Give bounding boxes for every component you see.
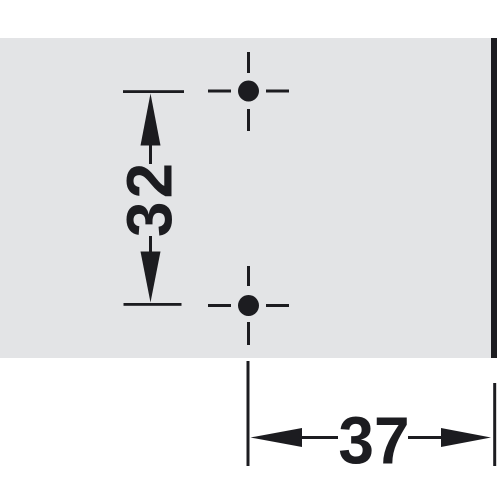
dimension 37 line left segment — [300, 436, 338, 439]
dimension 32 stem lower — [149, 236, 152, 256]
panel (gray mounting surface) — [0, 38, 491, 358]
dimension 37 extension line right — [493, 383, 496, 466]
hole H1 (top) — [208, 52, 289, 131]
svg-text:37: 37 — [338, 403, 409, 478]
dimension 37 extension line left — [247, 361, 250, 466]
dimension 32 arrow up — [141, 94, 161, 146]
svg-text:32: 32 — [114, 160, 186, 237]
dimension 32 stem upper — [149, 140, 152, 164]
dimension 37 arrow right — [441, 428, 491, 447]
dimension 32 tick top — [123, 90, 184, 93]
hole H2 (bottom) — [208, 266, 289, 345]
dimension 37 arrow left — [251, 428, 303, 447]
dimension 32 arrow down — [141, 252, 161, 303]
dimension 32 tick bottom — [124, 303, 182, 306]
dimension 37 line right segment — [408, 436, 443, 439]
panel front edge line — [491, 38, 497, 358]
